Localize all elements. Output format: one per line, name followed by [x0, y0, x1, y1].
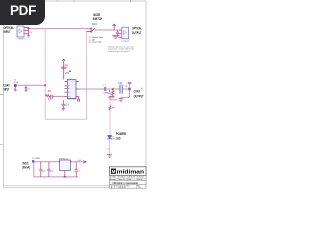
- title block outer boxes: [109, 167, 146, 176]
- border tick left: [0, 94, 4, 96]
- label COAX INPUT: [3, 84, 10, 92]
- svg-text:CO2.SCH: CO2.SCH: [118, 187, 126, 189]
- svg-text:RCA: RCA: [14, 81, 19, 84]
- capacitor C5: [39, 162, 42, 177]
- svg-text:1.0: 1.0: [138, 187, 140, 189]
- power +5V into IC: [62, 59, 65, 79]
- svg-text:+5V: +5V: [65, 72, 70, 75]
- wire: 9V rail left: [34, 161, 59, 163]
- svg-text:OUTPUT: OUTPUT: [134, 94, 145, 98]
- sheet background: [0, 0, 149, 198]
- connector J2 coax input: [14, 84, 17, 89]
- optical transmitter U3 TOTX: [119, 27, 129, 39]
- power +5V arrow at TOTX: [113, 24, 116, 30]
- ground at J3 shield: [119, 97, 124, 101]
- LED D2: [107, 135, 116, 140]
- wire: LED to ground: [109, 139, 111, 154]
- svg-text:TOTX173: TOTX173: [121, 41, 129, 43]
- svg-text:74HCU04: 74HCU04: [67, 99, 77, 101]
- capacitor C7: [75, 162, 78, 177]
- capacitor C6: [47, 162, 50, 177]
- svg-text:C12: C12: [118, 82, 123, 85]
- PDF badge overlay: [0, 0, 45, 25]
- note: switch position legend: [89, 36, 104, 43]
- wire: top net optical-in to switch: [30, 28, 91, 30]
- op-amp U1 inverter IC: [65, 80, 79, 99]
- svg-text:Arcadia: Arcadia: [110, 178, 116, 181]
- wire: resistor to LED: [109, 110, 111, 135]
- wire: ground rail: [34, 176, 78, 178]
- capacitor C4 below IC with ground: [62, 100, 66, 106]
- svg-text:second output terminals: second output terminals: [108, 50, 129, 53]
- label POWER LED: [116, 132, 126, 140]
- label OPTICAL OUTPUT: [132, 27, 142, 35]
- wire: J1 to ground rail: [33, 163, 35, 177]
- svg-text:TORX173: TORX173: [17, 39, 25, 41]
- wire: coax input net: [17, 84, 46, 86]
- svg-text:SWITCH: SWITCH: [93, 17, 103, 21]
- label OPTICAL INPUT: [4, 26, 14, 34]
- label MODE SWITCH: [93, 13, 103, 21]
- svg-text:LED: LED: [116, 136, 121, 140]
- bottom double border line: [4, 185, 147, 187]
- wire: J3 shield return: [121, 90, 129, 97]
- note: output remark text: [108, 45, 135, 53]
- capacitor C1 at coax input: [25, 85, 28, 90]
- capacitor C2 decoupling: [60, 67, 67, 69]
- resistor R5: [109, 106, 115, 110]
- ground at C1: [25, 91, 28, 92]
- wire: ic out to coax output: [78, 88, 119, 90]
- logo midiman: [111, 169, 145, 176]
- svg-text:Suite 12: Suite 12: [119, 178, 125, 181]
- connector J1 power jack: [32, 160, 34, 162]
- node tick below wire: [108, 90, 110, 92]
- ground below C4: [62, 106, 65, 111]
- svg-text:(90mA): (90mA): [22, 165, 30, 169]
- label COAX OUTPUT: [134, 89, 145, 98]
- capacitor C12 series: [118, 82, 123, 94]
- svg-text:+5V: +5V: [78, 160, 82, 162]
- wire: cap to coax connector: [123, 88, 129, 90]
- power +5V arrow right end of rail: [83, 161, 85, 163]
- svg-text:9-8-98: 9-8-98: [138, 179, 143, 181]
- wire: left vertical bus: [44, 29, 46, 120]
- svg-text:LM78L05: LM78L05: [59, 158, 69, 160]
- regulator U4 78L05: [59, 158, 71, 177]
- resistor R2 at IC output: [78, 96, 80, 101]
- wire: 5V rail right: [71, 161, 84, 163]
- wire: switch to optical output: [95, 29, 117, 31]
- capacitor C11: [116, 30, 119, 35]
- svg-text:INPUT: INPUT: [4, 30, 11, 34]
- inductor L1 series bead: [104, 85, 110, 94]
- svg-text:midiman: midiman: [117, 169, 145, 175]
- border tick top 2: [56, 0, 58, 2]
- wire: bottom horizontal bus: [45, 118, 86, 120]
- wire: right vertical bus: [86, 31, 88, 119]
- svg-text:INPUT: INPUT: [3, 87, 9, 91]
- ground LED: [107, 155, 112, 158]
- node: arrow tip: [85, 161, 86, 162]
- transistor Q1 stage: [45, 90, 53, 101]
- ground at TOTX: [112, 35, 119, 38]
- svg-text:M: M: [112, 169, 116, 174]
- svg-text:3 = Coax Input: 3 = Coax Input: [89, 40, 103, 43]
- svg-text:J1 PWR: J1 PWR: [32, 158, 40, 160]
- svg-text:OUTPUT: OUTPUT: [132, 31, 141, 35]
- svg-text:A: A: [141, 87, 143, 91]
- node dot: [69, 70, 71, 72]
- label 9VDC (90mA): [22, 162, 30, 170]
- title block bottom row cells: [114, 185, 136, 188]
- title block middle row cells: [118, 176, 137, 181]
- border tick top 3: [73, 0, 75, 2]
- node: junction R3/wire: [112, 88, 114, 90]
- optical receiver U2 TORX: [17, 26, 31, 37]
- connector J3 coax output: [125, 82, 132, 90]
- switch SW1: [86, 28, 95, 32]
- svg-text:SW1: SW1: [92, 23, 98, 26]
- node: regulator gnd junction: [64, 176, 66, 178]
- node: junction coax/vertical: [44, 84, 46, 86]
- svg-text:COAX: COAX: [134, 89, 141, 93]
- ground at J2: [14, 89, 17, 92]
- wire: down to resistor: [109, 100, 111, 106]
- resistor R3 to ground: [108, 89, 114, 98]
- power +5V arrow LED: [109, 96, 112, 100]
- border tick top: [130, 0, 132, 2]
- wire: q1 to ic pin: [50, 95, 65, 97]
- wire: +5V tee stub: [110, 99, 117, 101]
- sheet border frame: [4, 1, 147, 187]
- border tick left 2: [0, 144, 3, 146]
